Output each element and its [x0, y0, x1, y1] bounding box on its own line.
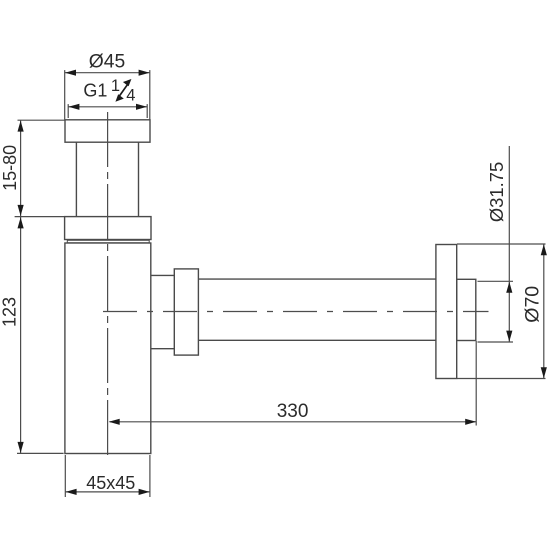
dim Ø31.75 extension lines [478, 280, 514, 282]
arrow 15-80 top [18, 121, 24, 132]
svg-text:330: 330 [277, 401, 309, 422]
arrow 123 top [18, 217, 24, 228]
dim 330 line [110, 421, 477, 423]
dim Ø45 extension lines [64, 70, 66, 119]
dim 330 right extension [475, 341, 477, 426]
svg-text:Ø45: Ø45 [89, 51, 125, 72]
wall-side nut [457, 279, 476, 340]
svg-text:1: 1 [111, 77, 120, 95]
dim 15-80 top extension [18, 119, 65, 121]
svg-text:45x45: 45x45 [86, 473, 135, 493]
horizontal centerline [103, 311, 489, 313]
dim 123 line [20, 217, 22, 454]
arrow Ø70 top [541, 244, 547, 255]
arrow Ø45 left [65, 70, 76, 76]
svg-text:4: 4 [126, 86, 135, 104]
dim 45x45 line [65, 491, 150, 493]
top nut (second flange) [65, 217, 151, 240]
ring seam [67, 240, 149, 243]
dim 123 bottom extension [17, 452, 64, 454]
arrow 123 bottom [18, 442, 24, 453]
arrow Ø70 bottom [541, 367, 547, 378]
outlet stub bottom wall [151, 348, 175, 350]
fraction slash arrow [115, 79, 131, 102]
horizontal nut [174, 269, 198, 355]
dim Ø31.75 line with leader [508, 146, 510, 342]
dim Ø70 line [543, 244, 545, 379]
vertical pipe left wall [75, 142, 77, 216]
body cup [65, 243, 151, 454]
arrow 45x45 left [66, 489, 77, 495]
arrow 330 left [109, 419, 120, 425]
arrow Ø31.75 top [506, 282, 512, 293]
vertical centerline [107, 112, 109, 457]
arrow G1 right [136, 104, 147, 110]
dim G1 line [68, 106, 147, 108]
arrow 330 right [465, 419, 476, 425]
svg-text:123: 123 [0, 297, 20, 327]
horizontal pipe top wall [198, 278, 436, 280]
dim G1 extension lines [67, 104, 69, 118]
arrow Ø45 right [139, 70, 150, 76]
svg-text:15-80: 15-80 [0, 145, 20, 191]
dim Ø70 extension lines [457, 243, 546, 245]
dim 15-80 / 123 shared extension [15, 216, 65, 218]
horizontal pipe bottom wall [198, 339, 436, 341]
dim 45x45 extension lines [64, 455, 66, 497]
svg-text:G1: G1 [83, 80, 107, 100]
svg-text:Ø31.75: Ø31.75 [486, 162, 507, 222]
arrow 15-80 bottom [18, 205, 24, 216]
dim Ø45 line [65, 72, 150, 74]
arrow 45x45 right [139, 489, 150, 495]
outlet stub top wall [151, 274, 175, 276]
svg-text:Ø70: Ø70 [522, 286, 544, 323]
top flange [65, 120, 150, 142]
arrow G1 left [68, 104, 79, 110]
wall flange [436, 245, 457, 379]
dim 15-80 line [20, 120, 22, 216]
vertical pipe right wall [138, 142, 140, 216]
arrow Ø31.75 bottom [506, 331, 512, 342]
